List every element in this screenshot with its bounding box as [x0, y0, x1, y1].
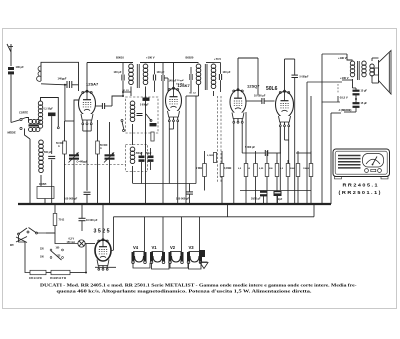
junction IFT1	[122, 91, 131, 93]
resistor R 35ohm	[51, 270, 70, 274]
svg-text:V3: V3	[189, 245, 195, 250]
label CONT	[39, 182, 47, 186]
svg-text:R R 2 4 0 5 . 1: R R 2 4 0 5 . 1	[343, 183, 379, 188]
label C14	[278, 198, 283, 201]
shield box 1 dashed	[126, 97, 159, 133]
label B0010 right	[340, 76, 349, 80]
wire y190	[240, 190, 311, 192]
svg-text:12SA7: 12SA7	[86, 82, 99, 87]
wire x294	[294, 78, 296, 204]
label 140pF 2	[157, 71, 165, 74]
wire R35 right	[70, 247, 87, 274]
svg-text:A: A	[58, 145, 60, 148]
gang link dashed	[64, 164, 126, 166]
wire IFT2 primary bottom	[186, 85, 199, 118]
resistor R 500 at 277	[275, 164, 279, 177]
label -10,5V	[339, 96, 348, 100]
svg-text:500 pF: 500 pF	[44, 151, 52, 154]
resistor small x215	[213, 153, 216, 163]
wire x186 down	[185, 118, 187, 204]
wire 12SA7 plate up	[86, 63, 88, 92]
label R2	[100, 144, 108, 150]
label R255.5	[248, 168, 251, 170]
wire 12SA7 cathode down	[83, 125, 91, 191]
label 100pF	[16, 65, 25, 69]
coil IFT1 primary	[129, 64, 134, 85]
svg-text:CORTE: CORTE	[19, 111, 28, 115]
wire 12SK7 pins	[169, 122, 177, 205]
wire 50L6 pins	[277, 127, 289, 191]
wire antenna down	[10, 75, 12, 123]
wire CONT down	[44, 199, 46, 205]
label V4	[133, 245, 139, 250]
label switch	[10, 245, 14, 247]
resistor R 70ohm	[53, 214, 57, 226]
label 35ohm	[50, 277, 67, 280]
svg-text:140µµF: 140µµF	[58, 77, 67, 81]
svg-text:15 µF: 15 µF	[361, 90, 368, 93]
wire CV2	[109, 122, 111, 204]
label 12SA7	[86, 82, 99, 87]
label C9	[176, 197, 190, 201]
resistor R 0,25 at 267	[265, 164, 269, 177]
wire R70 down	[46, 226, 55, 234]
svg-text:140 pF: 140 pF	[114, 71, 122, 74]
label C11	[300, 76, 309, 79]
wire L1 bottom	[25, 129, 31, 140]
coil L5	[130, 101, 135, 122]
capacitor C osc 500pF	[48, 156, 55, 204]
label 50pF	[146, 153, 152, 155]
rail segment 3	[174, 62, 214, 64]
svg-text:MEDIE: MEDIE	[8, 131, 16, 135]
wire taps mid	[46, 272, 51, 274]
cabinet grille	[338, 156, 361, 168]
heater rail	[114, 216, 315, 218]
label MEDIE right	[338, 108, 352, 112]
svg-text:5 000pF: 5 000pF	[140, 105, 149, 107]
svg-text:160: 160	[56, 248, 61, 250]
wire caps	[142, 148, 151, 184]
capacitor C 500pF	[139, 156, 145, 162]
svg-text:V2: V2	[170, 245, 176, 250]
label C17	[86, 219, 98, 222]
label 0,1 x215	[207, 155, 214, 157]
label 3525	[94, 229, 110, 235]
svg-text:2µF: 2µF	[278, 198, 283, 201]
label B0010	[116, 56, 124, 60]
wire mid horizontal	[133, 183, 196, 185]
coil L1b antenna lower	[29, 127, 40, 131]
tube V1 12SA7	[79, 90, 96, 125]
label 15uF 1	[361, 90, 368, 93]
capacitor 140pF 3	[162, 75, 164, 81]
label R277	[269, 168, 273, 170]
wire R255.5	[255, 151, 257, 204]
wire C15	[353, 88, 357, 99]
svg-text:DUCATI - Mod. RR 2405.1 e mod.: DUCATI - Mod. RR 2405.1 e mod. RR 2501.1…	[40, 282, 357, 287]
electrolytic C14 2uF	[274, 191, 282, 196]
wire trimmer junction down	[64, 85, 66, 121]
speaker	[375, 51, 392, 95]
capacitor IFT1 primary 140pF	[122, 63, 124, 97]
capacitor black 5000pF mid	[143, 98, 150, 101]
resistor R 0,5 at 246	[244, 164, 248, 177]
label R267	[259, 168, 264, 170]
heater V4	[132, 252, 147, 264]
label 0,1-10	[44, 109, 54, 111]
wire heater rail ends	[111, 204, 314, 251]
svg-text:10 000 pF: 10 000 pF	[254, 95, 266, 98]
wire heater links	[133, 263, 201, 270]
wire fuse drop	[54, 204, 56, 213]
capacitor 12SA7 right	[96, 103, 113, 109]
coil L6	[130, 147, 135, 164]
capacitor IFT2 left	[190, 67, 192, 92]
tube V5 3525 rectifier	[95, 239, 111, 271]
variable capacitor CV1	[69, 152, 80, 162]
core T2	[358, 61, 360, 80]
wire 3525 bottom	[95, 266, 116, 268]
tube V4 50L6	[276, 90, 294, 127]
wire R288	[287, 160, 289, 204]
label 500pF osc	[44, 151, 52, 154]
wire IFT2 secondary bottom	[213, 91, 215, 96]
wire tap loop	[19, 235, 31, 273]
svg-text:10 µµF: 10 µµF	[177, 80, 185, 82]
pilot lamp	[78, 240, 85, 247]
wire R2	[97, 120, 99, 204]
coil IFT2 primary	[196, 64, 201, 85]
rail segment 1	[87, 62, 133, 64]
label R246	[238, 168, 242, 170]
resistor R 5000 at 298	[296, 164, 300, 177]
label 100pF trimmer	[58, 77, 67, 81]
bus junction dots	[29, 203, 331, 205]
svg-text:35 Ω/25 Ω 5 W: 35 Ω/25 Ω 5 W	[50, 277, 67, 280]
label R311	[303, 168, 310, 170]
label 100000pF C8	[64, 197, 78, 201]
coil T2 secondary	[362, 61, 366, 77]
heater V1	[150, 252, 165, 264]
wire L6 down	[132, 166, 134, 184]
tube V3 12SQ7	[230, 89, 246, 124]
label 5000pF mid	[140, 105, 149, 107]
core IFT1	[137, 64, 139, 88]
svg-text:50: 50	[248, 168, 251, 170]
cabinet dial	[363, 154, 384, 168]
label IFT2 cap	[223, 71, 231, 74]
capacitor small mid	[137, 114, 143, 116]
label R4	[224, 167, 231, 170]
wire switch to coil	[26, 118, 29, 122]
svg-text:B1 C2: B1 C2	[190, 93, 197, 95]
wire CV1	[73, 121, 75, 204]
label C12	[245, 146, 255, 149]
svg-text:140 pF: 140 pF	[157, 71, 165, 74]
capacitor black left of SK7	[150, 123, 157, 126]
wire out top	[347, 54, 353, 60]
resistor R 0,2 at 288	[286, 164, 290, 177]
svg-text:V4: V4	[133, 245, 139, 250]
wire voice	[372, 58, 379, 83]
resistor R1 50000	[63, 141, 67, 154]
switch band	[11, 118, 26, 130]
switch mains a	[18, 228, 30, 235]
wire heater drops	[145, 217, 200, 251]
wire L2 top	[41, 98, 60, 129]
svg-text:( R R 2 5 0 1 . 1 ): ( R R 2 5 0 1 . 1 )	[339, 190, 382, 195]
coil L2 antenna secondary	[38, 101, 42, 128]
svg-text:CONT.: CONT.	[39, 182, 47, 186]
capacitor C17 10000pF	[79, 204, 86, 231]
svg-text:150 mA: 150 mA	[67, 241, 76, 244]
label 12SK7	[178, 83, 191, 88]
label +190V	[338, 56, 347, 60]
svg-text:0,25: 0,25	[259, 168, 264, 170]
wire C16	[344, 99, 356, 112]
label RR 2501-1	[339, 190, 382, 195]
wire R1 up	[64, 121, 66, 204]
label B1C2 left	[123, 90, 130, 92]
svg-text:quenza 460 kc/s. Altoparlante: quenza 460 kc/s. Altoparlante magnetodin…	[57, 288, 312, 293]
svg-text:70 Ω: 70 Ω	[59, 218, 65, 222]
label 2M	[196, 167, 202, 170]
capacitor C9 100000pF	[186, 184, 193, 205]
electrolytic C15 15uF	[353, 90, 360, 96]
wire R311	[310, 151, 312, 204]
ground bus	[18, 203, 331, 205]
electrolytic C16 15uF	[353, 102, 360, 108]
wire R4	[221, 151, 223, 204]
coil voice	[370, 64, 374, 76]
svg-text:100: 100	[40, 257, 45, 259]
svg-text:0,1-10µF: 0,1-10µF	[44, 109, 54, 111]
caption line 2	[57, 288, 312, 293]
wire x196	[195, 96, 197, 184]
wire x163	[162, 63, 164, 205]
capacitor C 50pF	[148, 156, 154, 162]
label 15uF 2	[361, 102, 368, 105]
wire R267	[266, 151, 268, 204]
voltage taps	[40, 248, 63, 261]
resistor R 10000 at 311	[309, 164, 313, 177]
switch contact a	[121, 120, 124, 131]
label 50000	[56, 142, 64, 148]
svg-text:C=440µµF: C=440µµF	[77, 161, 88, 164]
wire y151	[242, 127, 311, 153]
label C13	[251, 198, 261, 201]
label V3	[189, 245, 195, 250]
wire R277	[276, 160, 278, 204]
wire x311 upper	[310, 96, 312, 153]
svg-text:140 pF: 140 pF	[223, 71, 231, 74]
svg-text:-4 (MEDIE): -4 (MEDIE)	[338, 108, 352, 112]
svg-text:5 000 pF: 5 000 pF	[245, 146, 255, 149]
wire x306	[306, 82, 308, 204]
wire L5 bottom	[132, 124, 134, 145]
shield dashed IFT2	[218, 96, 222, 182]
svg-text:500: 500	[269, 168, 273, 170]
svg-text:0,1MΩ: 0,1MΩ	[207, 155, 214, 157]
svg-text:3 5 2 5: 3 5 2 5	[94, 229, 110, 235]
svg-text:+190 V: +190 V	[338, 56, 347, 60]
wire IFT1 secondary bottom	[145, 87, 147, 205]
wire y80 right	[307, 81, 342, 83]
svg-text:1/2-5K7: 1/2-5K7	[176, 84, 185, 86]
cabinet knobs	[365, 169, 382, 173]
wire R246	[245, 160, 247, 204]
junction speaker area	[355, 98, 357, 100]
wire R3	[204, 151, 206, 191]
svg-text:20/50 µF: 20/50 µF	[251, 198, 261, 201]
switch contact b	[123, 130, 125, 132]
label 10uuF	[176, 80, 185, 86]
label 50L6	[266, 86, 278, 92]
svg-text:2 MΩ: 2 MΩ	[196, 167, 202, 170]
cabinet outline	[333, 149, 390, 177]
label 70ohm	[59, 218, 65, 222]
svg-text:220: 220	[40, 249, 45, 251]
tube V2 12SK7	[166, 87, 182, 122]
svg-text:0,1MΩ: 0,1MΩ	[224, 167, 231, 170]
resistor R 105ohm	[30, 270, 46, 274]
heater V2	[169, 252, 184, 264]
label RR 2405-1	[343, 183, 379, 188]
svg-text:100 pF: 100 pF	[16, 65, 25, 69]
svg-text:B0010: B0010	[116, 56, 124, 60]
capacitor C12 5000pF	[265, 150, 267, 156]
svg-text:INT.: INT.	[10, 245, 14, 247]
ground blob	[199, 250, 205, 257]
resistor small x152	[151, 132, 154, 141]
trimmer 100pF grid	[64, 81, 79, 88]
shield box 2 dashed	[126, 145, 148, 172]
label C10	[254, 95, 266, 98]
coil IFT2 secondary	[211, 64, 216, 89]
svg-text:V1: V1	[152, 245, 158, 250]
svg-text:10000: 10000	[303, 168, 310, 170]
label +70V	[214, 57, 221, 61]
coil IFT1 secondary	[143, 64, 148, 85]
potentiometer box CONT	[37, 187, 54, 199]
label lamp	[67, 238, 76, 245]
coil L4 loop aerial	[37, 62, 79, 91]
capacitor black top	[48, 113, 56, 117]
ground symbol	[200, 262, 208, 269]
caption line 1	[40, 282, 357, 287]
rail segment 2	[140, 62, 176, 64]
svg-text:0,5: 0,5	[238, 168, 242, 170]
wire black cap down	[51, 116, 53, 154]
wire out bottom	[342, 79, 353, 88]
capacitor IFT2 cap	[214, 63, 222, 93]
label 140pF 1	[114, 71, 122, 74]
coil T2 primary	[350, 61, 354, 77]
svg-text:A: A	[100, 147, 102, 150]
core IFT2	[205, 64, 207, 90]
svg-text:50L6: 50L6	[266, 86, 278, 92]
svg-text:B1 C2: B1 C2	[123, 90, 130, 92]
wire 50L6 plate	[285, 59, 295, 92]
wire C13	[263, 191, 265, 205]
label 500pF	[136, 153, 143, 155]
label CORTE	[19, 111, 28, 115]
resistor R2 cathode	[96, 141, 100, 154]
heater V3	[187, 252, 202, 264]
electrolytic C13 20/50	[260, 191, 267, 197]
wire C14	[277, 196, 279, 204]
resistor R 50 at 255.5	[254, 164, 258, 177]
svg-text:105 Ω 16 W: 105 Ω 16 W	[29, 277, 43, 280]
wire 12SQ7 plate	[238, 58, 258, 95]
svg-text:+70 V: +70 V	[214, 57, 221, 61]
svg-text:0,2: 0,2	[280, 168, 284, 170]
label +100V	[146, 56, 155, 60]
svg-text:100 000 pF: 100 000 pF	[64, 197, 78, 201]
svg-text:5 000pF: 5 000pF	[300, 76, 309, 79]
label 105ohm	[29, 277, 43, 280]
wire 12SQ7 pins	[234, 112, 246, 204]
antenna	[7, 44, 13, 66]
wire IFT1 primary bottom	[130, 87, 132, 97]
label R288	[280, 168, 284, 170]
wire C8 down	[86, 194, 88, 204]
wire 12SA7 grid left	[65, 100, 79, 121]
label B1C2	[190, 93, 197, 95]
svg-text:-10,5 V: -10,5 V	[339, 96, 348, 100]
svg-text:B0020: B0020	[186, 56, 194, 60]
variable capacitor CV2	[104, 152, 115, 162]
wire 12SK7 plate	[164, 63, 173, 93]
label R298	[290, 168, 296, 170]
label B0020	[186, 56, 194, 60]
svg-text:+100 V: +100 V	[340, 76, 349, 80]
svg-text:+100 V: +100 V	[146, 56, 155, 60]
svg-text:500pF: 500pF	[136, 153, 143, 155]
resistor R4	[220, 164, 224, 177]
wire x330	[322, 84, 341, 102]
svg-text:100 000 pF: 100 000 pF	[176, 197, 190, 201]
wire right cap down	[112, 95, 124, 106]
wire x311 lower	[310, 153, 312, 164]
wire lamp to tube	[85, 244, 95, 247]
label MEDIE	[8, 131, 16, 135]
svg-text:10 000 pF: 10 000 pF	[86, 219, 98, 222]
label V2	[170, 245, 176, 250]
wire 3525 top	[102, 204, 104, 240]
capacitor C10 10000pF	[247, 98, 275, 104]
label 140pF 3	[169, 80, 177, 83]
capacitor antenna 100pF	[8, 67, 14, 74]
wire R298	[297, 151, 299, 204]
resistor R3 2M	[203, 164, 207, 177]
switch mains b	[16, 228, 38, 243]
wire L3 bottom	[40, 175, 42, 186]
svg-text:50pF: 50pF	[146, 153, 152, 155]
cabinet feet	[335, 177, 389, 179]
wire osc left	[29, 139, 31, 204]
wire switch to lamp	[38, 233, 78, 244]
coil L3 oscillator	[39, 140, 44, 173]
label V1	[152, 245, 158, 250]
switch contact c	[146, 114, 152, 122]
wire x322	[322, 54, 347, 204]
label 12SQ7	[247, 84, 260, 89]
wire x334	[331, 113, 341, 204]
core T1	[29, 124, 39, 126]
capacitor IFT1 secondary 140pF	[153, 63, 155, 93]
